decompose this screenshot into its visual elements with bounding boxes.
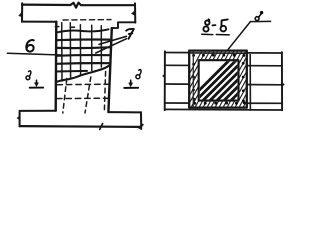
mesh 7 vertical bar 5 xyxy=(100,26,102,67)
top flange top edge with break zigzag xyxy=(22,3,135,8)
left beam end edge xyxy=(164,51,166,110)
column left edge xyxy=(55,22,58,111)
bottom flange right edge with overshoot xyxy=(140,112,142,129)
section mark letter (right) xyxy=(136,70,141,79)
mesh horizontal bar 5 xyxy=(56,62,109,65)
beam top bar across joint xyxy=(190,52,247,54)
top flange bottom edge left xyxy=(22,21,57,23)
top flange left edge tick xyxy=(19,12,23,18)
section arrow (right) xyxy=(130,80,132,83)
label 8 leader xyxy=(228,22,251,50)
section arrow (left) xyxy=(36,80,38,83)
mesh horizontal bar 3 xyxy=(56,46,109,49)
title underline 1 xyxy=(202,33,213,35)
bottom flange bottom edge with break tick xyxy=(20,125,141,128)
hidden dashed horizontal 1 xyxy=(57,83,108,86)
bottom flange left edge xyxy=(19,111,21,126)
mesh 7 vertical bar 4 xyxy=(91,25,93,70)
hidden edge lower column dashed vertical 1 xyxy=(63,79,67,114)
label 8 xyxy=(255,11,263,21)
mesh 7 vertical bar 1 xyxy=(61,23,63,81)
section title letter 2 xyxy=(221,19,228,31)
top flange left edge xyxy=(21,3,23,22)
hidden edge lower column dashed vertical 3 xyxy=(104,72,105,114)
right beam end edge xyxy=(281,52,283,110)
hidden line of column top through flange xyxy=(63,19,111,21)
stirrup inner line left xyxy=(192,52,194,107)
left beam end tick xyxy=(162,74,165,78)
title underline 2 xyxy=(216,34,229,36)
column right edge xyxy=(108,28,111,112)
mesh horizontal bar 2 xyxy=(56,38,109,41)
beam bar line 5 (bottom) xyxy=(165,108,282,111)
bottom flange left tick xyxy=(17,116,20,121)
right beam end tick xyxy=(282,82,285,86)
beam bar line 1 (top) xyxy=(165,52,282,55)
leader for label 6 xyxy=(7,53,61,55)
bottom flange top edge right xyxy=(108,111,141,113)
concrete joint break line xyxy=(56,65,110,82)
mesh 7 vertical bar 2 xyxy=(69,23,71,78)
top flange right edge tick xyxy=(132,11,135,16)
top flange bottom edge right with step xyxy=(112,22,136,28)
mesh horizontal bar 6 (partial) xyxy=(56,70,87,73)
beam bar line 3 xyxy=(165,83,282,86)
leader 7b xyxy=(96,39,127,53)
mesh 7 vertical bar 3 xyxy=(79,25,81,75)
label 8 shelf xyxy=(250,20,270,22)
section title letter 1 xyxy=(203,19,209,31)
section mark letter (left) xyxy=(26,71,31,80)
joint inner square xyxy=(199,60,239,100)
mesh horizontal bar 4 xyxy=(56,54,109,57)
mesh 6 top horizontal bar (wavy) xyxy=(57,29,109,32)
beam bar line 2 xyxy=(165,64,282,67)
label 6 xyxy=(26,40,34,52)
stirrup inner line right xyxy=(249,55,251,111)
beam bar line 4 xyxy=(165,102,282,104)
bottom flange top edge left xyxy=(20,110,56,112)
top flange right edge xyxy=(134,3,136,22)
hidden edge lower column dashed vertical 2 xyxy=(85,77,91,113)
section title dash xyxy=(212,24,215,26)
rebar dots in band xyxy=(192,54,246,105)
leader 7a xyxy=(99,36,127,44)
hidden dashed horizontal 2 xyxy=(57,97,109,99)
label 7 xyxy=(126,29,134,39)
joint outer square xyxy=(189,51,247,108)
